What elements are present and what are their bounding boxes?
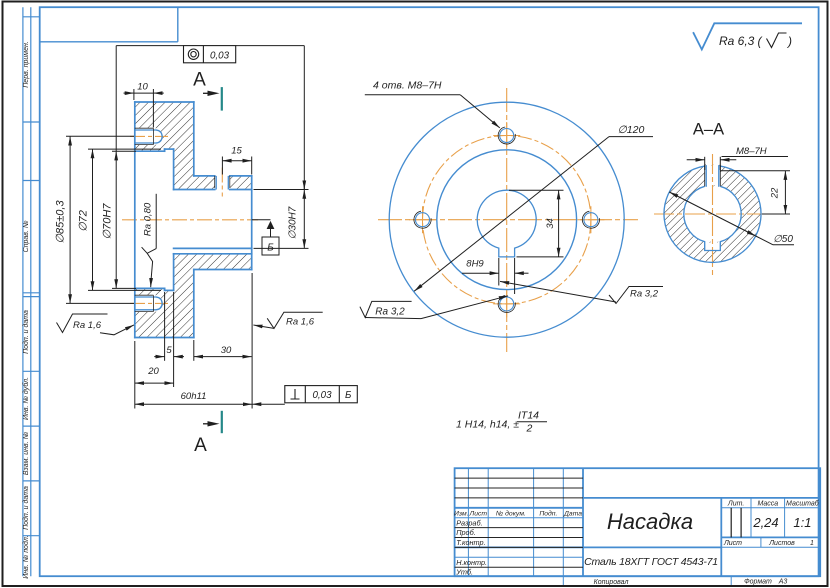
svg-text:№ докум.: № докум. xyxy=(496,509,526,517)
svg-text:Листов: Листов xyxy=(768,540,795,547)
concentricity tolerance frame 0,03 xyxy=(184,46,236,63)
svg-text:20: 20 xyxy=(147,366,159,377)
dim Ø30H7 xyxy=(254,189,309,191)
section hatching bottom half xyxy=(135,254,252,338)
title block (stamp) outer box xyxy=(455,468,821,576)
perpendicularity tolerance frame 0,03 Б xyxy=(285,386,358,403)
svg-text:Б: Б xyxy=(345,390,352,401)
svg-text:Масса: Масса xyxy=(757,500,778,507)
centerlines xyxy=(378,88,638,352)
stamp thin lines xyxy=(455,468,821,576)
svg-text:Подп. и дата: Подп. и дата xyxy=(22,310,30,354)
litera cell dividers (dark) xyxy=(731,508,741,538)
4 bolt holes M8-7H xyxy=(493,122,520,149)
svg-text:А: А xyxy=(194,435,207,456)
leader lines to concentricity frame xyxy=(115,46,117,152)
svg-text:Подп. и дата: Подп. и дата xyxy=(22,486,30,530)
svg-text:IT14: IT14 xyxy=(518,410,539,422)
tapped hole M8 top (flange) xyxy=(135,130,229,310)
datum Б flag xyxy=(252,220,279,255)
svg-text:10: 10 xyxy=(137,82,148,93)
general roughness Ra 6,3 (top right) xyxy=(693,23,802,49)
svg-text:34: 34 xyxy=(545,218,556,229)
svg-text:Ra 6,3: Ra 6,3 xyxy=(719,34,755,48)
outer circle Ø120 xyxy=(389,102,624,337)
label 4 отв. М8-7Н xyxy=(365,95,500,128)
svg-text:15: 15 xyxy=(231,146,242,157)
section hatching top half xyxy=(135,102,215,190)
general note 1 H14, h14 ± IT14/2 xyxy=(456,410,539,435)
svg-text:Б: Б xyxy=(267,243,274,254)
svg-text:Копировал: Копировал xyxy=(594,579,629,586)
roughness Ra 3,2 (right) xyxy=(500,281,663,303)
svg-text:∅72: ∅72 xyxy=(78,210,90,232)
svg-text:8Н9: 8Н9 xyxy=(466,259,484,270)
dim Ø72 xyxy=(88,148,161,150)
bolt circle (centerline) xyxy=(423,136,591,304)
roughness Ra 3,2 (left) xyxy=(360,296,508,319)
svg-text:А–А: А–А xyxy=(693,121,724,139)
recess circles Ø70H7 / Ø72 xyxy=(437,150,577,290)
roughness Ra 1,6 (right, to right face) xyxy=(253,312,322,328)
svg-text:60h11: 60h11 xyxy=(181,391,207,402)
below-frame strip xyxy=(563,576,731,585)
svg-text:Инв. № дубл.: Инв. № дубл. xyxy=(22,377,30,420)
svg-text:Н.контр.: Н.контр. xyxy=(456,558,487,567)
dim 34 xyxy=(509,190,564,257)
part outline (blue) xyxy=(135,102,252,338)
roughness Ra 0,80 (rotated, inside pocket) xyxy=(142,194,157,287)
dim 22 xyxy=(720,171,790,214)
A-A hatching xyxy=(664,164,761,262)
svg-text:Изм.: Изм. xyxy=(454,511,469,518)
svg-text:Подп.: Подп. xyxy=(539,509,557,517)
roughness Ra 1,6 (left, to left face) xyxy=(57,314,135,335)
bore Ø30 with keyway 8H9 xyxy=(477,190,536,257)
dim 15 xyxy=(221,157,223,175)
svg-text:2,24: 2,24 xyxy=(752,515,778,530)
svg-text:1: 1 xyxy=(810,540,814,547)
svg-text:Инв. № подл.: Инв. № подл. xyxy=(22,535,30,578)
svg-text:22: 22 xyxy=(770,187,781,199)
top-left designation box xyxy=(40,7,178,42)
left margin cell labels xyxy=(22,41,30,579)
stamp values xyxy=(584,509,811,568)
svg-text:Лит.: Лит. xyxy=(727,501,744,508)
leader to perpendicularity frame xyxy=(252,403,285,405)
svg-text:М8–7Н: М8–7Н xyxy=(736,146,767,157)
A-A centerlines xyxy=(654,154,763,276)
dim 8H9 xyxy=(462,258,529,294)
svg-text:Сталь 18ХГТ ГОСТ 4543-71: Сталь 18ХГТ ГОСТ 4543-71 xyxy=(584,556,718,568)
svg-text:1:1: 1:1 xyxy=(793,515,811,530)
dim М8-7Н xyxy=(687,157,788,171)
svg-text:Ra 1,6: Ra 1,6 xyxy=(286,317,315,328)
A-A outer circle Ø50 xyxy=(664,165,761,262)
dim Ø50 xyxy=(669,192,794,245)
svg-text:Перв. примен.: Перв. примен. xyxy=(23,41,30,88)
svg-text:∅30H7: ∅30H7 xyxy=(288,206,299,239)
dim 20 xyxy=(173,340,175,387)
stamp right block labels xyxy=(723,499,820,547)
svg-text:30: 30 xyxy=(221,345,232,356)
dim 60h11 xyxy=(134,341,136,409)
svg-text:Лист: Лист xyxy=(469,510,488,517)
svg-text:4 отв. М8–7Н: 4 отв. М8–7Н xyxy=(373,80,442,92)
dim Ø120 leader xyxy=(414,137,653,292)
svg-text:∅50: ∅50 xyxy=(773,234,793,245)
svg-text:Насадка: Насадка xyxy=(607,509,693,534)
svg-text:0,03: 0,03 xyxy=(210,50,230,61)
stamp dark row lines xyxy=(455,478,583,567)
svg-text:Ra 3,2: Ra 3,2 xyxy=(630,289,659,300)
svg-text:2: 2 xyxy=(526,423,533,435)
svg-text:Ra 0,80: Ra 0,80 xyxy=(143,202,154,236)
svg-text:Дата: Дата xyxy=(563,510,582,517)
svg-text:1 Н14, h14, ±: 1 Н14, h14, ± xyxy=(456,419,519,431)
left margin column lines xyxy=(23,7,40,576)
svg-text:Ra 3,2: Ra 3,2 xyxy=(375,307,405,318)
svg-text:Ra 1,6: Ra 1,6 xyxy=(73,320,102,331)
section plane A (top) xyxy=(221,87,223,433)
svg-text:∅70H7: ∅70H7 xyxy=(102,203,114,240)
svg-text:0,03: 0,03 xyxy=(312,390,332,401)
svg-text:Формат: Формат xyxy=(744,579,772,586)
dim 10 xyxy=(133,89,135,100)
svg-text:Масштаб: Масштаб xyxy=(786,499,820,507)
A-A M8 slot walls xyxy=(705,165,707,187)
svg-text:А: А xyxy=(193,70,206,91)
svg-text:Лист: Лист xyxy=(723,540,742,547)
svg-text:Проб.: Проб. xyxy=(456,528,476,537)
stamp header texts xyxy=(454,509,582,517)
svg-text:∅85±0,3: ∅85±0,3 xyxy=(55,200,67,244)
svg-text:Разраб.: Разраб. xyxy=(456,519,482,528)
dim 5 xyxy=(164,292,166,361)
dim Ø85±0,3 xyxy=(66,135,134,137)
thread thin lines xyxy=(135,128,230,311)
svg-text:Утб.: Утб. xyxy=(455,568,473,577)
A-A bore with keyway xyxy=(684,186,741,250)
svg-text:∅120: ∅120 xyxy=(618,124,645,136)
svg-text:Взам. инв. №: Взам. инв. № xyxy=(23,431,30,475)
svg-text:Т.контр.: Т.контр. xyxy=(456,538,485,547)
dim 30 xyxy=(193,340,195,361)
svg-text:Справ. №: Справ. № xyxy=(23,220,30,252)
svg-text:5: 5 xyxy=(166,345,172,356)
svg-text:А3: А3 xyxy=(778,579,788,586)
dim Ø70H7 xyxy=(112,150,136,152)
centerline: part axis xyxy=(122,136,258,303)
